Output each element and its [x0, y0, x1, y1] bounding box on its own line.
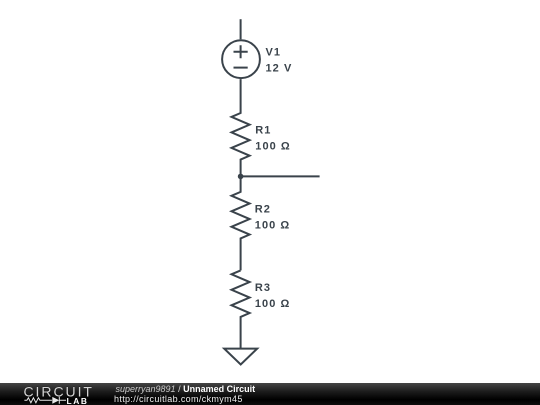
svg-text:R3: R3 — [255, 282, 271, 294]
svg-text:R2: R2 — [255, 203, 271, 215]
svg-text:R1: R1 — [255, 125, 271, 137]
svg-text:100 Ω: 100 Ω — [255, 298, 290, 310]
svg-text:100 Ω: 100 Ω — [255, 141, 290, 153]
svg-text:V1: V1 — [266, 47, 282, 59]
svg-text:100 Ω: 100 Ω — [255, 219, 290, 231]
svg-text:LAB: LAB — [67, 396, 89, 405]
svg-text:12 V: 12 V — [266, 63, 293, 75]
